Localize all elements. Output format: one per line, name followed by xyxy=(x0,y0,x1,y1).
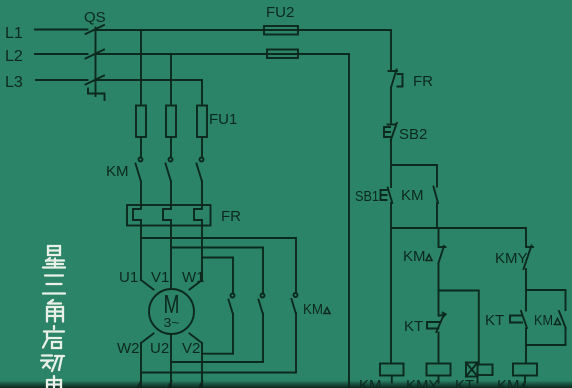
wire phase B to KM contact xyxy=(170,137,172,157)
contact FR NC tick xyxy=(389,70,398,72)
wire KMY NC to junction xyxy=(525,269,527,290)
wire phase B delta branch xyxy=(171,247,263,249)
wire V2 delta link xyxy=(202,353,233,355)
wire KMY coil stub xyxy=(438,376,440,383)
contact KT1 arrow xyxy=(439,313,446,317)
switch QS link bar xyxy=(95,28,97,97)
wire right return rail xyxy=(348,54,350,388)
wire phase A delta branch xyxy=(141,237,296,239)
contact KM aux blade xyxy=(434,187,439,204)
wire junction down xyxy=(438,291,440,315)
fuse FU1b xyxy=(166,106,176,138)
svg-text:KT: KT xyxy=(485,312,504,329)
wire to junction xyxy=(438,264,440,291)
switch QS blade pole2 xyxy=(86,50,105,59)
wire L2 incoming xyxy=(35,53,88,55)
button SB1 blade xyxy=(388,188,393,204)
svg-text:V1: V1 xyxy=(151,269,169,286)
contact KM-delta pole3 lower wire xyxy=(295,313,297,373)
svg-text:U1: U1 xyxy=(119,269,138,286)
contact KM-delta pole3 upper wire xyxy=(295,238,297,293)
contact KT2 delay cup xyxy=(510,316,522,323)
wire SB2 to SB1 xyxy=(390,140,392,165)
triangle for KM-delta aux label xyxy=(555,319,561,325)
wire phase A to motor U1 xyxy=(141,280,154,290)
svg-text:U2: U2 xyxy=(150,340,169,357)
wire branch to KM aux xyxy=(391,165,437,187)
contact KM pole2 terminal xyxy=(169,158,173,162)
wire down to KM-delta coil xyxy=(525,345,527,364)
wire SB1 top xyxy=(390,165,392,187)
svg-text:SB2: SB2 xyxy=(399,126,427,143)
wire KT2 top xyxy=(525,290,527,311)
wire motor U2 lead xyxy=(170,335,172,388)
contact KT1 blade xyxy=(436,316,443,333)
svg-text:KM: KM xyxy=(534,312,553,329)
wire KT1 to KMY coil xyxy=(438,333,440,364)
contact KM-delta pole1 lower wire xyxy=(232,314,234,354)
triangle for KM-delta motor label xyxy=(324,308,330,314)
svg-text:KM: KM xyxy=(497,377,520,388)
wire motor V2 lead xyxy=(190,334,203,388)
contact FR bracket xyxy=(398,74,403,87)
fuse FU2b xyxy=(267,50,298,59)
wire U2 delta link xyxy=(171,361,263,363)
wire phase C through FR heater xyxy=(194,181,202,280)
contact KM-delta aux blade xyxy=(559,311,566,328)
svg-text:W2: W2 xyxy=(117,340,140,357)
wire phase A through FR heater xyxy=(133,181,141,280)
coil KT xyxy=(478,365,493,376)
hanzi jiao xyxy=(47,300,63,322)
svg-text:FU1: FU1 xyxy=(209,111,237,128)
svg-text:L2: L2 xyxy=(5,48,23,65)
wire phase B upper xyxy=(170,54,172,106)
fuse FU1a xyxy=(136,106,146,138)
wire phase B through FR heater to motor V1 xyxy=(163,181,171,289)
wire motor W2 lead xyxy=(141,334,154,388)
contact KM-delta NC tick xyxy=(439,246,446,248)
svg-text:KM: KM xyxy=(403,248,426,265)
wire KT2 bottom xyxy=(525,329,527,346)
wire KM-delta NC branch xyxy=(438,228,440,246)
wire KM-delta coil stub xyxy=(524,376,526,383)
contact KM-delta pole2 lower wire xyxy=(262,314,264,363)
motor M circle xyxy=(149,289,194,334)
svg-text:KT: KT xyxy=(404,318,423,335)
svg-text:3~: 3~ xyxy=(164,315,180,330)
contact KM pole2 blade xyxy=(166,164,171,182)
svg-text:KT: KT xyxy=(455,377,474,388)
svg-text:KM: KM xyxy=(303,301,323,318)
wire phase C upper xyxy=(201,80,203,106)
svg-text:W1: W1 xyxy=(182,269,205,286)
contact KM-delta pole1 blade xyxy=(229,300,233,314)
wire KM coil stub xyxy=(391,376,393,383)
wire L2 after QS through FU2b to right rail xyxy=(96,53,350,55)
wire L1 after QS to FU2 and down to control rail xyxy=(96,30,392,71)
contact KM-delta pole2 terminal xyxy=(261,294,265,298)
wire FR to SB2 xyxy=(390,88,392,123)
svg-text:V2: V2 xyxy=(182,340,200,357)
svg-text:FR: FR xyxy=(221,208,241,225)
wire phase C delta branch xyxy=(202,257,233,259)
coil KM-delta xyxy=(513,364,537,376)
wire bottom hooks xyxy=(138,381,203,388)
contact KM pole3 blade xyxy=(197,164,202,182)
contact FR NC blade xyxy=(391,70,397,88)
fuse FU2a xyxy=(264,26,298,35)
switch QS blade pole3 xyxy=(86,76,105,85)
wire L3 after QS xyxy=(96,79,203,81)
wire parallel rejoin xyxy=(526,344,566,346)
wire phase A to KM contact xyxy=(140,137,142,157)
contact KT1 delay cup xyxy=(427,322,440,329)
wire W2 delta link xyxy=(141,372,296,374)
svg-text:KM: KM xyxy=(106,163,129,180)
wire phase A upper xyxy=(140,30,142,106)
fuse FU1c xyxy=(197,106,207,138)
contact KM pole1 blade xyxy=(136,164,141,182)
switch QS blade pole1 xyxy=(86,25,105,34)
contact KM-delta NC blade xyxy=(438,246,444,264)
wire KM aux bottom xyxy=(436,203,438,228)
wire junction to KT coil xyxy=(439,291,479,363)
hanzi qi xyxy=(43,326,64,348)
svg-text:KM: KM xyxy=(401,187,424,204)
contact KM-delta pole2 upper wire xyxy=(262,248,264,294)
contact KM-delta pole3 terminal xyxy=(294,293,298,297)
hanzi san xyxy=(43,276,65,294)
svg-text:SB1: SB1 xyxy=(355,188,379,205)
wire L1 incoming xyxy=(35,29,88,31)
svg-text:KMY: KMY xyxy=(495,250,528,267)
button SB2 blade xyxy=(391,123,397,140)
contact KMY NC blade xyxy=(524,246,532,270)
hanzi dong xyxy=(41,356,64,372)
button SB2 plunger xyxy=(384,127,390,137)
triangle for KM-delta NC label xyxy=(426,255,432,261)
contact KM-delta pole1 terminal xyxy=(231,294,235,298)
wire SB1 bottom xyxy=(390,203,392,228)
wire phase C to KM contact xyxy=(201,137,203,157)
coil KM xyxy=(380,364,404,376)
svg-text:QS: QS xyxy=(84,9,106,26)
svg-text:FR: FR xyxy=(413,73,433,90)
contact KM pole3 terminal xyxy=(200,158,204,162)
wire L3 incoming xyxy=(36,79,88,81)
wire phase C to motor W1 xyxy=(190,280,203,290)
svg-text:KM: KM xyxy=(359,377,382,388)
svg-text:L1: L1 xyxy=(5,25,23,42)
coil KMY xyxy=(427,364,451,376)
wire junction to KM-delta aux xyxy=(526,290,566,310)
wire KMY NC branch xyxy=(525,228,527,246)
wire KM-delta aux bottom xyxy=(565,328,567,345)
contact KT2 blade xyxy=(521,311,527,328)
svg-text:FU2: FU2 xyxy=(266,4,294,21)
contact KM-delta pole3 blade xyxy=(292,299,296,313)
hanzi dian xyxy=(47,376,61,388)
svg-text:L3: L3 xyxy=(5,74,23,91)
wire rejoin rail xyxy=(391,227,526,229)
contact KMY NC tick xyxy=(526,246,533,248)
wire down to KM coil xyxy=(390,228,392,364)
contact KM pole1 terminal xyxy=(139,158,143,162)
coil KT X strokes xyxy=(466,363,478,377)
button SB1 plunger xyxy=(381,190,387,200)
contact KM-delta pole2 blade xyxy=(259,300,263,314)
wire KT coil stub xyxy=(477,377,479,383)
button SB2 tick xyxy=(388,124,397,126)
switch QS handle xyxy=(88,89,105,101)
contact KM-delta pole1 upper wire xyxy=(232,258,234,294)
coil KT box X xyxy=(466,363,478,377)
relay FR heater box xyxy=(127,205,211,226)
svg-text:KMY: KMY xyxy=(406,377,439,388)
hanzi xing xyxy=(43,246,65,268)
